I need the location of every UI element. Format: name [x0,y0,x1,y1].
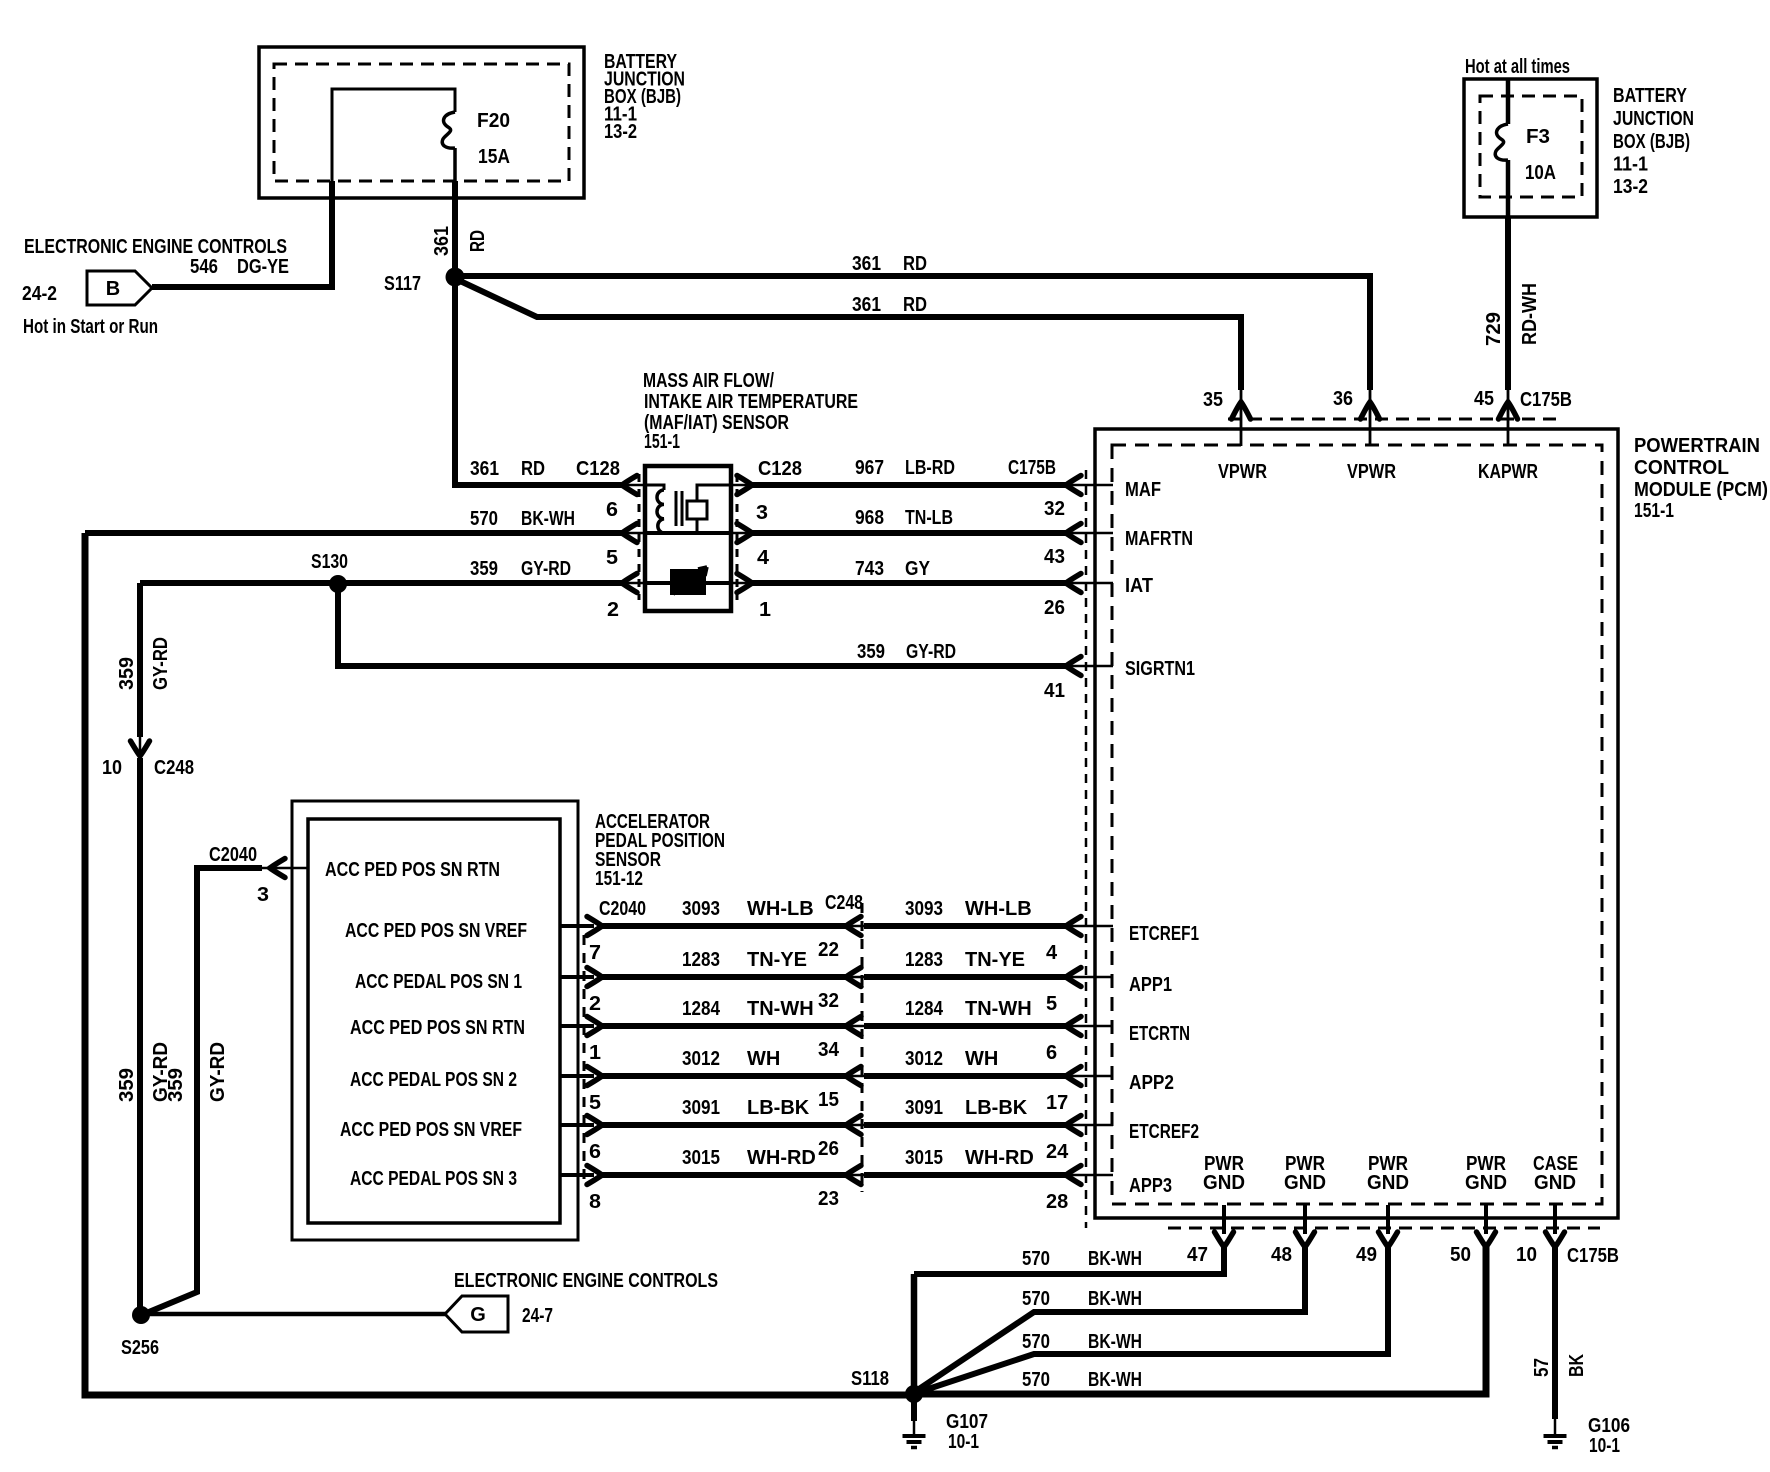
PCM name label [1634,435,1768,522]
svg-text:3015: 3015 [682,1147,720,1169]
wire 361 RD from S117 down to MAF sensor pin 6 [455,277,645,495]
battery junction box BJB (top left) outer box [259,47,584,198]
svg-text:3091: 3091 [682,1097,720,1119]
C248 pin 28 label (right) [1046,1191,1068,1213]
C248 pin 17 label (right) [1046,1092,1068,1114]
svg-text:359: 359 [116,1068,138,1102]
wire 3093 WH-LB from C248 pin 4 to PCM ETCREF1 [864,917,1113,936]
MAF sensor pin 1 label [759,599,771,621]
svg-text:APP1: APP1 [1129,974,1172,996]
sensor terminal label ACC PED POS SN VREF (pin 6) [340,1119,522,1141]
wire 570 BK-WH label (MAF) [470,508,575,530]
svg-text:1: 1 [759,599,771,621]
svg-text:3015: 3015 [905,1147,943,1169]
PCM pin 43 label [1044,546,1065,568]
wire 967 LB-RD label [855,457,955,479]
wire 3091 LB-BK label (left) [682,1097,810,1119]
C248 pin 22 label (left) [818,939,839,961]
PCM pin name APP1 [1129,974,1172,996]
wire 570 BK-WH label (row 4) [1022,1369,1142,1391]
wire 359 GY-RD from row down to connector C248 pin 10 [131,583,150,1315]
svg-text:45: 45 [1474,388,1494,410]
svg-text:DG-YE: DG-YE [237,256,289,278]
svg-text:APP2: APP2 [1129,1072,1174,1094]
wire 570 BK-WH from PCM pin 49 to S118 [916,1205,1398,1393]
label S130 [311,551,348,573]
svg-text:17: 17 [1046,1092,1068,1114]
wire 570 BK-WH label (row 3) [1022,1331,1142,1353]
BJB (top left) name label [604,51,685,143]
svg-text:BK-WH: BK-WH [1088,1369,1142,1391]
svg-text:GY-RD: GY-RD [906,641,956,663]
PCM pin 41 label [1044,680,1065,702]
wire from S256 to connector G [141,1312,445,1317]
wire 359 GY-RD vertical labels (lower) [116,1042,229,1102]
svg-text:RD: RD [467,230,489,252]
svg-text:ACC PED POS SN VREF: ACC PED POS SN VREF [340,1119,522,1141]
svg-text:15: 15 [818,1089,839,1111]
svg-text:G106: G106 [1588,1415,1630,1437]
svg-text:361: 361 [852,253,881,275]
wire 359 GY-RD label (MAF) [470,558,571,580]
battery junction box BJB (top right) outer box [1464,79,1597,217]
svg-text:WH: WH [747,1048,780,1070]
wire 1284 TN-WH label (right) [905,998,1032,1020]
wire 361 RD lower label [852,294,927,316]
MAF sensor pin 2 label [607,599,619,621]
wire 361 RD from S117 to PCM pin 36 [455,276,1380,446]
svg-text:24-7: 24-7 [522,1305,553,1327]
svg-text:ACC PEDAL POS SN 1: ACC PEDAL POS SN 1 [355,971,522,993]
svg-text:BK-WH: BK-WH [1088,1248,1142,1270]
svg-text:RD: RD [903,253,927,275]
svg-text:10: 10 [1516,1244,1537,1266]
svg-text:ACC PEDAL POS SN 2: ACC PEDAL POS SN 2 [350,1069,517,1091]
svg-text:VPWR: VPWR [1347,461,1396,483]
svg-text:26: 26 [1044,597,1065,619]
svg-text:361: 361 [431,226,453,256]
svg-text:VPWR: VPWR [1218,461,1267,483]
MAF sensor pin 6 label [606,499,618,521]
svg-text:35: 35 [1203,389,1223,411]
svg-text:WH-LB: WH-LB [747,898,814,920]
label S118 [851,1368,889,1390]
battery junction box BJB (top left) dashed internal box [274,64,569,181]
svg-text:ELECTRONIC ENGINE CONTROLS: ELECTRONIC ENGINE CONTROLS [454,1270,718,1292]
sensor terminal label ACC PEDAL POS SN 2 (pin 5) [350,1069,517,1091]
svg-text:11-1: 11-1 [1613,154,1648,176]
svg-text:CONTROL: CONTROL [1634,457,1729,479]
connector C2040 label (row 1) [599,898,646,920]
svg-text:SIGRTN1: SIGRTN1 [1125,658,1195,680]
sensor terminal label ACC PEDAL POS SN 1 (pin 2) [355,971,522,993]
C248 pin 15 label (left) [818,1089,839,1111]
svg-text:TN-WH: TN-WH [747,998,814,1020]
splice S130 [329,575,347,593]
svg-text:MAF: MAF [1125,479,1161,501]
wire 359 GY-RD vertical label (upper) [116,637,172,690]
svg-text:32: 32 [1044,498,1065,520]
svg-text:151-1: 151-1 [644,431,680,453]
wire 3015 WH-RD from C248 pin 28 to PCM APP3 [864,1166,1113,1185]
wire 3012 WH label (left) [682,1048,780,1070]
C248 pin 32 label (left) [818,990,839,1012]
PCM pin name IAT [1125,575,1153,597]
svg-text:967: 967 [855,457,884,479]
svg-text:ACC PED POS SN RTN: ACC PED POS SN RTN [350,1017,525,1039]
svg-text:BK: BK [1566,1354,1588,1377]
BJB (top right) name label [1613,85,1694,198]
PCM pin name ETCREF1 [1129,923,1199,945]
C248 pin 6 label (right) [1046,1042,1057,1064]
svg-text:ETCRTN: ETCRTN [1129,1023,1190,1045]
pedal sensor pin 8 label [589,1191,601,1213]
PCM pin name KAPWR (pin 45) [1478,461,1538,483]
svg-text:TN-LB: TN-LB [905,507,953,529]
PCM pin name PWR GND (pin 50) [1465,1153,1507,1194]
pin 50 label [1450,1244,1471,1266]
label ELECTRONIC ENGINE CONTROLS (bottom) [454,1270,718,1292]
svg-text:G: G [470,1304,486,1326]
svg-text:WH: WH [965,1048,998,1070]
svg-text:6: 6 [606,499,618,521]
svg-text:C248: C248 [825,892,863,914]
wire 546 DG-YE from connector B to BJB [152,181,332,287]
wire 3012 WH from pedal sensor pin 5 to C248 pin 15 [560,1067,864,1086]
pin 10 label [1516,1244,1537,1266]
svg-text:GY-RD: GY-RD [150,637,172,690]
label 24-7 [522,1305,553,1327]
svg-text:28: 28 [1046,1191,1068,1213]
svg-text:359: 359 [116,657,138,690]
sensor terminal label ACC PEDAL POS SN 3 (pin 8) [350,1168,517,1190]
svg-text:LB-RD: LB-RD [905,457,955,479]
PCM pin name APP3 [1129,1175,1172,1197]
svg-text:LB-BK: LB-BK [747,1097,810,1119]
svg-text:KAPWR: KAPWR [1478,461,1538,483]
wire 1283 TN-YE label (left) [682,949,807,971]
svg-text:3012: 3012 [905,1048,943,1070]
wire 968 TN-LB label [855,507,953,529]
pin 49 label [1356,1244,1377,1266]
MAF/IAT sensor name label [643,370,858,453]
wire 359 GY-RD from S130 to MAF pin 2 [140,574,645,593]
svg-text:8: 8 [589,1191,601,1213]
PCM pin name VPWR (pin 35) [1218,461,1267,483]
svg-text:WH-RD: WH-RD [965,1147,1034,1169]
svg-text:Hot in Start or Run: Hot in Start or Run [23,316,158,338]
svg-text:47: 47 [1187,1244,1208,1266]
label S256 [121,1337,159,1359]
svg-text:GND: GND [1534,1172,1576,1194]
wire 1284 TN-WH from C248 pin 6 to PCM ETCRTN [864,1017,1113,1036]
connector B (pentagon) from 24-2 [87,271,152,305]
wire stub from S118 to ground G107 [911,1398,917,1434]
pin 47 label [1187,1244,1208,1266]
svg-text:RD: RD [521,458,545,480]
svg-text:F3: F3 [1526,126,1550,148]
wire 546 DG-YE label [190,256,289,278]
battery junction box BJB (top right) dashed internal box [1480,96,1582,197]
svg-text:B: B [106,278,120,300]
C248 pin 34 label (left) [818,1039,840,1061]
PCM pin name MAF [1125,479,1161,501]
wire 729 RD-WH vertical label [1483,283,1541,346]
connector C175B label (MAF row) [1008,457,1056,479]
sensor terminal label ACC PED POS SN RTN (pin 3) [325,859,500,881]
svg-text:C128: C128 [576,458,620,480]
wire 570 BK-WH from PCM pin 48 to S118 [916,1205,1315,1391]
svg-text:ETCREF2: ETCREF2 [1129,1121,1199,1143]
connector C128 label (left) [576,458,620,480]
svg-text:G107: G107 [946,1411,988,1433]
wire 3015 WH-RD label (left) [682,1147,816,1169]
svg-text:10-1: 10-1 [1589,1435,1620,1457]
svg-text:C128: C128 [758,458,802,480]
svg-text:GY-RD: GY-RD [207,1042,229,1102]
svg-text:JUNCTION: JUNCTION [1613,108,1694,130]
svg-text:3093: 3093 [905,898,943,920]
svg-text:POWERTRAIN: POWERTRAIN [1634,435,1760,457]
fuse F20 body [332,89,455,181]
pedal sensor pin 1 label [589,1042,601,1064]
svg-text:2: 2 [589,993,601,1015]
powertrain control module PCM dashed connector box [1112,445,1602,1204]
wire 3012 WH from C248 pin 17 to PCM APP2 [864,1067,1113,1086]
wire 1283 TN-YE label (right) [905,949,1025,971]
wire 570 BK-WH main ground run from MAF return to S118 [85,533,914,1395]
svg-text:3093: 3093 [682,898,720,920]
svg-text:C248: C248 [154,757,194,779]
svg-text:WH-LB: WH-LB [965,898,1032,920]
svg-text:50: 50 [1450,1244,1471,1266]
svg-text:5: 5 [589,1092,601,1114]
svg-text:1: 1 [589,1042,601,1064]
wire 3093 WH-LB from pedal sensor pin 7 to C248 pin 22 [560,917,864,936]
accelerator pedal position sensor outer box [292,801,578,1240]
svg-text:GND: GND [1284,1172,1326,1194]
svg-text:151-12: 151-12 [595,868,643,890]
pedal sensor pin 6 label [589,1141,601,1163]
accelerator pedal sensor name label [595,811,725,890]
label ELECTRONIC ENGINE CONTROLS (top) [24,236,287,258]
MAF sensor pin 5 label [606,547,618,569]
label Hot at all times [1465,56,1570,78]
svg-text:570: 570 [1022,1288,1050,1310]
label S117 [384,273,421,295]
svg-text:TN-YE: TN-YE [965,949,1025,971]
svg-text:3: 3 [756,502,768,524]
wire 3012 WH label (right) [905,1048,998,1070]
MAF IAT thermistor element [645,567,731,595]
wire 361 RD vertical label [431,226,489,256]
ground G106 label [1588,1415,1630,1457]
svg-text:ACC PED POS SN RTN: ACC PED POS SN RTN [325,859,500,881]
svg-text:48: 48 [1271,1244,1292,1266]
svg-text:15A: 15A [478,146,510,168]
svg-text:4: 4 [757,547,770,569]
wire 1283 TN-YE from C248 pin 5 to PCM APP1 [864,968,1113,987]
svg-text:13-2: 13-2 [604,121,637,143]
wire 729 RD-WH from fuse F3 to PCM pin 45 [1499,217,1518,446]
svg-text:BK-WH: BK-WH [1088,1331,1142,1353]
svg-text:GND: GND [1203,1172,1245,1194]
wire 3091 LB-BK from C248 pin 24 to PCM ETCREF2 [864,1116,1113,1135]
pin 45 label [1474,388,1494,410]
svg-text:5: 5 [1046,993,1057,1015]
pedal sensor pin 2 label [589,993,601,1015]
svg-text:6: 6 [1046,1042,1057,1064]
svg-text:ETCREF1: ETCREF1 [1129,923,1199,945]
svg-text:C175B: C175B [1567,1245,1619,1267]
wire 361 RD from S117 to PCM pin 35 [458,280,1251,446]
svg-text:BK-WH: BK-WH [1088,1288,1142,1310]
svg-text:GND: GND [1367,1172,1409,1194]
svg-text:GND: GND [1465,1172,1507,1194]
wire 359 GY-RD label (SIGRTN1) [857,641,956,663]
connector G (pentagon) to 24-7 [445,1296,508,1332]
svg-text:3: 3 [257,884,269,906]
connector C175B dashed line (top) [1228,418,1556,421]
wire 570 BK-WH label (row 2) [1022,1288,1142,1310]
PCM pin name VPWR (pin 36) [1347,461,1396,483]
svg-text:S256: S256 [121,1337,159,1359]
wire 968 TN-LB from MAF pin 4 to PCM MAFRTN pin 43 [731,524,1113,543]
svg-text:2: 2 [607,599,619,621]
svg-text:4: 4 [1046,942,1058,964]
svg-text:729: 729 [1483,312,1505,346]
svg-text:F20: F20 [477,110,510,132]
svg-text:C2040: C2040 [599,898,646,920]
connector C248 label [825,892,863,914]
ground G106 [1544,1436,1567,1448]
svg-text:43: 43 [1044,546,1065,568]
wire 3093 WH-LB label (left) [682,898,814,920]
svg-text:C175B: C175B [1520,389,1572,411]
sensor terminal label ACC PED POS SN RTN (pin 1) [350,1017,525,1039]
wire 1284 TN-WH from pedal sensor pin 1 to C248 pin 34 [560,1017,864,1036]
fuse F3 body [1495,79,1508,217]
connector C248 pin 10 label [102,757,194,779]
svg-text:570: 570 [1022,1331,1050,1353]
wire 57 BK from PCM CASE GND pin 10 to G106 [1546,1205,1565,1434]
svg-text:57: 57 [1531,1358,1553,1377]
svg-text:TN-WH: TN-WH [965,998,1032,1020]
connector C175B dashed line (bottom) [1168,1227,1600,1230]
svg-text:13-2: 13-2 [1613,176,1648,198]
fuse F3 label [1525,126,1556,184]
svg-text:359: 359 [857,641,885,663]
svg-text:RD-WH: RD-WH [1519,283,1541,345]
PCM pin name PWR GND (pin 47) [1203,1153,1245,1194]
wire 3015 WH-RD from pedal sensor pin 8 to C248 pin 23 [560,1166,864,1185]
PCM pin name ETCRTN [1129,1023,1190,1045]
svg-text:MAFRTN: MAFRTN [1125,528,1193,550]
C248 pin 24 label (right) [1046,1141,1069,1163]
wire 570 BK-WH from PCM pin 50 to S118 [914,1205,1496,1394]
svg-text:GY: GY [905,558,931,580]
svg-text:1283: 1283 [682,949,720,971]
connector C175B label (bottom) [1567,1245,1619,1267]
sensor terminal label ACC PED POS SN VREF (pin 7) [345,920,527,942]
svg-text:ELECTRONIC ENGINE CONTROLS: ELECTRONIC ENGINE CONTROLS [24,236,287,258]
splice S118 [905,1385,923,1403]
wire 3093 WH-LB label (right) [905,898,1032,920]
wire 359 GY-RD from sensor pin 3 to S256 [144,859,308,1315]
svg-text:361: 361 [470,458,499,480]
svg-text:968: 968 [855,507,884,529]
connector C128 label (right) [758,458,802,480]
svg-text:361: 361 [852,294,881,316]
svg-text:S118: S118 [851,1368,889,1390]
svg-text:7: 7 [589,942,601,964]
connector C175B dashed line (left side) [1085,470,1088,1228]
svg-text:22: 22 [818,939,839,961]
wire 361 RD from fuse F20 to S117 [452,181,458,277]
MAF sensor pin 4 label [757,547,770,569]
accelerator pedal position sensor inner box [308,819,560,1223]
svg-text:C2040: C2040 [209,844,257,866]
wire 743 GY label [855,558,931,580]
pin 48 label [1271,1244,1292,1266]
svg-text:S117: S117 [384,273,421,295]
splice S256 [132,1306,150,1324]
svg-text:TN-YE: TN-YE [747,949,807,971]
C248 pin 23 label (left) [818,1188,839,1210]
svg-text:RD: RD [903,294,927,316]
wire 743 GY from MAF pin 1 to PCM IAT pin 26 [731,574,1113,593]
svg-text:10-1: 10-1 [948,1431,979,1453]
svg-text:3091: 3091 [905,1097,943,1119]
wire 570 BK-WH from left to MAF pin 5 [85,524,645,543]
wire 1283 TN-YE from pedal sensor pin 2 to C248 pin 32 [560,968,864,987]
C248 pin 4 label (right) [1046,942,1058,964]
svg-text:IAT: IAT [1125,575,1153,597]
wire 361 RD label (at MAF) [470,458,545,480]
wire 3091 LB-BK from pedal sensor pin 6 to C248 pin 26 [560,1116,864,1135]
wire 57 BK vertical label [1531,1354,1588,1377]
svg-text:10A: 10A [1525,162,1556,184]
svg-text:10: 10 [102,757,122,779]
svg-text:GY-RD: GY-RD [521,558,571,580]
label 24-2 [22,283,57,305]
svg-text:BOX (BJB): BOX (BJB) [1613,131,1690,153]
svg-text:26: 26 [818,1138,839,1160]
svg-text:23: 23 [818,1188,839,1210]
svg-text:546: 546 [190,256,218,278]
svg-text:MODULE (PCM): MODULE (PCM) [1634,479,1768,501]
label Hot in Start or Run [23,316,158,338]
PCM pin name PWR GND (pin 48) [1284,1153,1326,1194]
fuse F20 label [477,110,510,168]
svg-text:1284: 1284 [682,998,721,1020]
powertrain control module PCM outer box [1095,429,1618,1218]
PCM pin 32 label [1044,498,1065,520]
pin 36 label [1333,388,1353,410]
svg-text:359: 359 [470,558,498,580]
connector C128 dashed line (left of sensor) [638,474,641,600]
svg-text:MASS AIR FLOW/: MASS AIR FLOW/ [643,370,774,392]
connector C2040 dashed line [583,935,586,1185]
svg-text:41: 41 [1044,680,1065,702]
wire 570 BK-WH from PCM pin 47 to S118 riser [914,1205,1234,1274]
PCM pin name APP2 [1129,1072,1174,1094]
svg-text:Hot at all times: Hot at all times [1465,56,1570,78]
MAF sensor pin 3 label [756,502,768,524]
svg-text:APP3: APP3 [1129,1175,1172,1197]
C248 pin 5 label (right) [1046,993,1057,1015]
svg-text:3012: 3012 [682,1048,720,1070]
